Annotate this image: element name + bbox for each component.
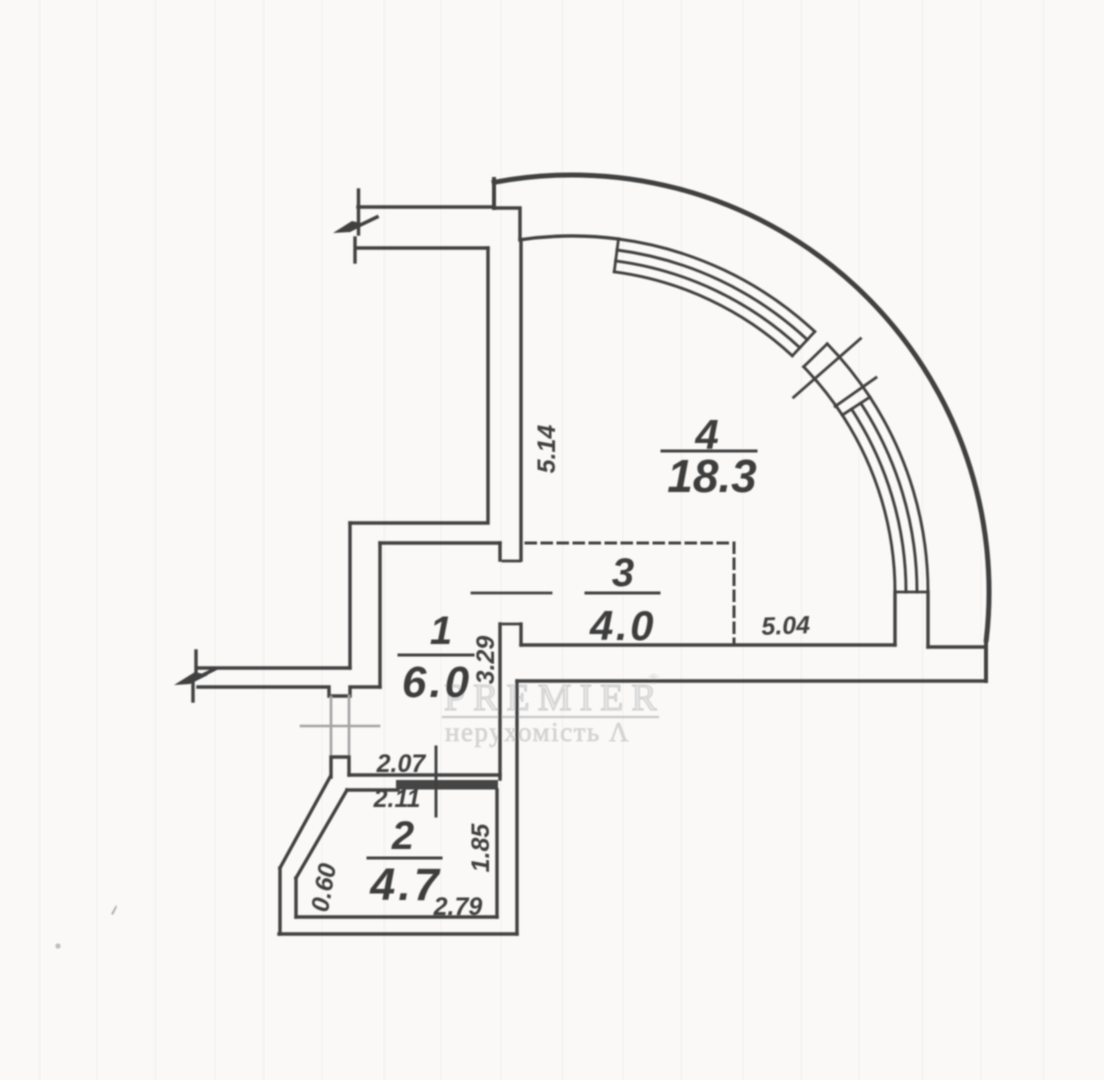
svg-text:2.79: 2.79: [433, 893, 483, 921]
break symbol upper corridor: [333, 190, 377, 262]
room2 top wall lower line: [347, 788, 398, 791]
bottom wall of round room top line left part: [521, 643, 895, 646]
room1 label: [402, 609, 472, 707]
bottom wall right edge: [984, 640, 988, 681]
step joint at arc start: [494, 208, 520, 240]
window end jamb right: [926, 592, 929, 647]
door leaf line room1-room3: [472, 592, 551, 595]
outer arc start stub: [492, 179, 496, 208]
window band arc section 2 (4 lines): [842, 397, 928, 592]
dimension tick 2.07: [435, 747, 438, 816]
window mullion tick T2: [804, 344, 828, 367]
svg-text:6.0: 6.0: [402, 658, 472, 707]
door jamb tick lower: [503, 623, 520, 626]
wall upper corridor bottom line: [358, 246, 488, 249]
room2 bottom wall outer line: [279, 932, 517, 935]
svg-text:2.07: 2.07: [376, 750, 427, 778]
radial divider L2: [835, 378, 876, 407]
room4 fraction line: [662, 450, 756, 453]
room2 top wall upper line: [349, 773, 500, 776]
curved wall inner face arc: [520, 236, 619, 240]
bottom wall top line right part: [928, 645, 984, 648]
hall vertical wall right face: [519, 240, 522, 560]
long radial divider L1: [794, 339, 861, 398]
room3 dashed zone top: [526, 542, 734, 545]
wall upper corridor top line: [358, 205, 494, 208]
room2 label: [369, 814, 442, 910]
wall right face below door: [519, 624, 522, 645]
room1 left wall outer face: [348, 523, 351, 668]
room2 left wall outer face: [278, 868, 281, 934]
watermark underline: [443, 716, 658, 718]
room3 fraction line: [586, 592, 659, 595]
lower corridor top line: [198, 666, 350, 669]
svg-text:4.7: 4.7: [369, 859, 442, 910]
window band start cap: [614, 239, 618, 272]
watermark PREMIER: [444, 672, 665, 747]
exterior curved wall outer arc: [494, 175, 989, 640]
room2 fraction line: [368, 857, 441, 860]
window band arc section 1 (4 lines): [614, 239, 815, 356]
room4 label: [667, 411, 757, 502]
svg-text:5.14: 5.14: [533, 425, 561, 474]
hall vertical wall left face: [350, 248, 488, 523]
room2 left wall inner face: [294, 878, 297, 917]
room1 top wall inner line: [380, 541, 500, 544]
room2 inner diagonal wall: [296, 790, 347, 878]
lower corridor bottom line with jog: [198, 687, 380, 696]
svg-text:3.29: 3.29: [472, 636, 500, 685]
svg-text:3: 3: [612, 551, 634, 595]
svg-text:4.0: 4.0: [589, 602, 656, 649]
right wall outer face full height: [515, 681, 518, 934]
room3 label: [589, 551, 656, 649]
door jamb tick upper: [503, 560, 520, 563]
window band opening section (2 lines): [804, 344, 870, 415]
break symbol lower corridor: [174, 651, 215, 701]
room2 outer diagonal wall: [280, 777, 330, 868]
svg-text:нерухомість Λ: нерухомість Λ: [445, 717, 630, 747]
window mullion tick T3: [842, 397, 870, 415]
window end jamb left: [893, 592, 896, 645]
bottom wall outer line: [517, 679, 986, 682]
svg-text:1: 1: [430, 609, 452, 653]
dimension texts: [306, 425, 811, 921]
room2 top wall filled partition: [396, 780, 498, 790]
room1 right wall inner face: [498, 543, 501, 779]
svg-text:2: 2: [391, 814, 414, 858]
window mullion tick T1: [792, 332, 815, 356]
room1 fraction line: [399, 654, 473, 657]
svg-text:1.85: 1.85: [467, 823, 495, 873]
room1 left wall inner face: [378, 543, 381, 687]
room2 right wall inner face: [495, 790, 498, 917]
svg-text:2.11: 2.11: [373, 785, 421, 813]
window band end cap: [895, 591, 928, 594]
svg-text:5.04: 5.04: [761, 611, 811, 641]
room2 bottom wall inner line: [296, 915, 497, 918]
stray scan marks: [55, 905, 117, 949]
room3 dashed zone right: [733, 543, 736, 643]
opening lintel pier: [331, 757, 349, 777]
svg-text:18.3: 18.3: [667, 450, 757, 502]
opening gap light lines: [301, 696, 379, 757]
